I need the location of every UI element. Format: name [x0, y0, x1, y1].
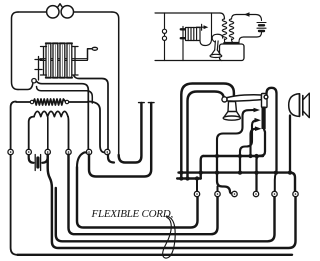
outer box top-left corner + left edge down [11, 102, 18, 255]
transmitter hinge plate [262, 94, 268, 108]
terminal center dots [10, 151, 108, 153]
inset transmitter base ellipse [210, 54, 222, 57]
bell gong left [47, 6, 59, 18]
inset induction coil primary [222, 19, 226, 40]
cord line 3: across, up to right terminal R5 [56, 188, 275, 241]
hook contact arrowhead 1 [254, 108, 261, 113]
junction node hookbar-R2 [254, 170, 258, 174]
current arrow on inset wire [244, 12, 250, 17]
inset ringer wire down to bottom [182, 42, 184, 61]
inset transmitter stem [215, 41, 218, 50]
receiver hook wire from hinge [267, 88, 277, 171]
junction node hookbar-R1 [254, 154, 258, 158]
inset ringer coil [186, 28, 201, 41]
inset armature arrowhead [204, 25, 209, 29]
inset battery lead down-left to box [239, 31, 262, 44]
cord line 4: from terminal L3 down, across, up to right terminal R6 [48, 155, 296, 249]
winding terminal circle Z1 left [30, 100, 33, 103]
junction node arc1-R2 [179, 170, 183, 174]
magneto left bracket [35, 57, 42, 81]
inset armature contact and arrow [201, 24, 203, 30]
hook contact arrowhead 2 [255, 118, 262, 123]
battery thin plate 1 [34, 155, 36, 171]
inset ringer coil hatching [188, 28, 196, 41]
svg-text:FLEXIBLE CORD,: FLEXIBLE CORD, [91, 208, 174, 220]
terminal R3 [232, 191, 237, 196]
inset ringer bracket [182, 27, 184, 42]
battery thick middle plate [36, 158, 39, 167]
transmitter horn cup [228, 102, 237, 112]
transmitter horn bell [224, 112, 240, 117]
terminal L6 drop into heavy line [108, 155, 114, 163]
transmitter pivot circle [222, 97, 227, 102]
row R2 (long bus) [179, 173, 296, 192]
terminal L6 [105, 149, 110, 154]
magneto bar top caps [46, 42, 72, 44]
stub terminal R1 up to row R3 [196, 179, 198, 192]
magneto shaft through bars [40, 59, 88, 61]
junction node Vd-R2 [215, 170, 219, 174]
resistor zigzag Z1 on outer box top [16, 99, 88, 105]
junction node R1stub-R3 [195, 176, 199, 180]
receiver bell flare [303, 93, 310, 117]
outer box right corner down to node F [88, 102, 105, 153]
inset coil-to-hook wire [200, 13, 212, 46]
terminal R5 [272, 191, 277, 196]
stub terminal R5 up to row R2 [275, 173, 276, 192]
wire left bottom run to magneto terminal [18, 84, 33, 90]
terminal L5 [86, 149, 91, 154]
terminal R2 [215, 191, 220, 196]
inset coil bottom leads [225, 39, 235, 44]
terminal R6 [293, 191, 298, 196]
junction node Vc-R2 [199, 170, 203, 174]
wire top-right corner + tall right vertical [112, 12, 119, 155]
stub terminal R2 up [217, 187, 219, 192]
junction node Vd-R1 [215, 154, 219, 158]
magneto magnet bar 4 [67, 44, 72, 78]
wire from hook bar bottom down to terminal R4 [257, 129, 266, 192]
inset ringer bracket pads [181, 29, 185, 38]
hinge screw circle [264, 95, 268, 99]
junction node receiver-R2 [288, 170, 292, 174]
inner box right corner down to terminal 4 [67, 117, 70, 150]
inset coil secondary top lead + arrowed wire to battery [232, 15, 262, 21]
inset transmitter gooseneck arm [212, 34, 223, 42]
inset coil primary top lead [220, 13, 225, 19]
inset left vertical [164, 13, 166, 61]
wire battery to terminal 3 [42, 155, 47, 163]
terminal R4 [253, 191, 258, 196]
magneto magnet bar 1 [46, 44, 51, 78]
hook switch bar [262, 107, 266, 130]
row R1 [203, 155, 263, 157]
line wire 1: node F to post cap [119, 103, 142, 163]
terminal L2 [26, 149, 31, 154]
row R1 left corner down to row R3 [201, 156, 203, 179]
junction node arrow3-R1 [248, 154, 252, 158]
cord line 2: from terminal L4 down, across, up to right terminal R2 [69, 155, 218, 235]
receiver cord wire down [289, 116, 291, 173]
terminal R1 [194, 191, 199, 196]
inset armature arrow shaft [197, 26, 205, 28]
terminal center dots [196, 193, 296, 195]
winding terminal circle Z1 right [65, 100, 68, 103]
magneto end plate right [72, 47, 78, 76]
inset induction coil secondary [229, 19, 233, 40]
inset transmitter bell [211, 50, 221, 55]
wire bell to top-right corner [74, 11, 112, 13]
wire top-left corner + left vertical [12, 12, 19, 90]
arch from cord conductor v5 into terminal L5 [77, 152, 87, 167]
inset transmitter box [220, 44, 245, 61]
row R3 long heavy run to the left with hooked end [177, 177, 201, 179]
hook contact wire 1 (step from row R1) [217, 110, 254, 156]
wire V_e down to row R2 [239, 156, 241, 173]
receiver face plates [300, 94, 303, 117]
line wire 2 cap [148, 102, 154, 104]
magneto magnet bar 2 [53, 44, 58, 78]
magneto bar shading [48, 45, 69, 76]
inset battery B2 plate long 2 [257, 27, 266, 29]
inset line terminal circle upper [162, 29, 166, 33]
wire terminal2 down to battery [29, 155, 34, 163]
magneto bar bottom caps [46, 77, 72, 79]
wire A: magneto right-bottom to vertical x107 [74, 76, 108, 149]
inset battery B2 plate short 1 [259, 24, 264, 26]
big arc wire 2 (to transmitter pivot) [188, 92, 224, 179]
transmitter horn rim ellipse [223, 116, 240, 120]
cord line 1: from circle5 arch down, across, up to right terminal R1 [77, 167, 198, 228]
inset battery B2 plate long 1 [257, 22, 266, 24]
terminal L4 [66, 149, 71, 154]
inset line stub + top wire [155, 12, 220, 14]
junction node Ve-R2 [238, 170, 242, 174]
wire top-left to bell [18, 11, 46, 13]
battery thin plate 2 [40, 155, 42, 171]
coil tap wire down to terminal 3 [47, 118, 49, 150]
cord coil squiggle leader [163, 216, 175, 258]
junction node R5stub-R2 [274, 170, 278, 174]
magneto crank [88, 49, 94, 60]
junction node arc2-R3 [185, 176, 189, 180]
cord line 5: outer box edge across bottom [18, 254, 293, 256]
receiver ear dome [289, 94, 300, 117]
transmitter arm [227, 95, 262, 101]
wire B: magneto left-bottom to vertical x89 [37, 82, 89, 150]
hook contact wire 2 (step from row R1) [240, 120, 258, 156]
resistor zigzag Z2 on inner box top [34, 111, 68, 116]
magneto terminal circle [32, 79, 36, 83]
terminal L3 [45, 149, 50, 154]
hook wire V_d down with jog to terminal R3 [217, 156, 235, 194]
junction dots [179, 154, 292, 181]
inset box terminal nubs [225, 42, 239, 45]
inset bottom wire [155, 60, 222, 62]
line wire 1 cap [139, 102, 145, 104]
bell gong right [61, 6, 73, 18]
hook contact wire 3 (from row R1) [251, 129, 257, 156]
magneto crank handle knob [92, 47, 97, 50]
bell clapper [58, 4, 62, 7]
junction node Ve-R1 [238, 154, 242, 158]
wire C: hooked lead to coil corner [37, 87, 93, 104]
magneto magnet bar 3 [60, 44, 65, 78]
hook contact arrowhead 3 [255, 126, 262, 131]
magneto end plate left [41, 47, 47, 76]
junction node arc1-R3 [179, 176, 183, 180]
line wire 2: terminal L5 lead to post cap [89, 103, 151, 177]
big arc wire 1 (to transmitter circuit) [181, 84, 234, 179]
terminal L1 [8, 149, 13, 154]
inset line terminal circle lower [162, 36, 166, 40]
inner box top-left corner + left edge to terminal 2 [29, 117, 34, 150]
inset battery B2 plate short 2 [259, 30, 264, 32]
